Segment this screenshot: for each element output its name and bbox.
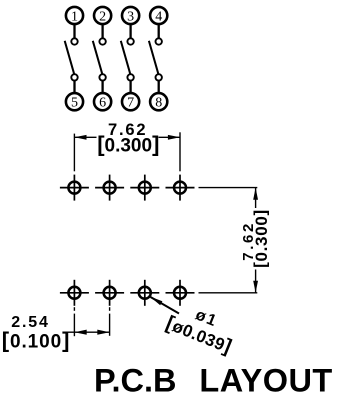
wire lower contact to pin 5 [73,81,75,92]
switch S2 lever [93,41,102,74]
pad A4 [166,175,195,201]
switch S2 lower contact [99,74,105,80]
switch S1 pin 1 terminal circle [66,7,83,24]
pad B1 [60,280,89,306]
pad B4 [166,280,195,306]
switch S4 upper contact [156,38,162,44]
wire lower contact to pin 6 [101,81,103,92]
switch S4 pin 8 terminal circle [150,93,167,110]
pad A2 [95,175,124,201]
switch S1 upper contact [71,38,77,44]
svg-text:5: 5 [71,96,78,111]
dimension line left segment with arrow [74,135,96,140]
extension line bottom pad row right [199,292,258,294]
wire pin2 to upper contact [101,25,103,38]
switch S4 pin 4 terminal circle [150,7,167,24]
svg-text:4: 4 [155,9,162,24]
switch S1 lever [65,41,74,74]
pad A3 [130,175,159,201]
vertical dimension line lower segment with arrow [253,270,258,293]
switch S3 lever [121,41,130,74]
pad A1 [60,175,89,201]
extension line top pad row right [199,187,258,189]
switch S2 upper contact [99,38,105,44]
extension line pad A1 top [73,134,75,172]
wire pin4 to upper contact [158,25,160,38]
switch S3 pin 7 terminal circle [122,93,139,110]
extension line pad B2 bottom [109,307,111,336]
svg-text:P.C.B LAYOUT: P.C.B LAYOUT [94,362,333,398]
vertical dimension line upper segment with arrow [253,188,258,208]
leader arrow to pad B3 [150,297,179,314]
dimension line 2.54 with outward arrows [67,330,109,335]
switch S2 pin 2 terminal circle [94,7,111,24]
svg-text:3: 3 [127,9,134,24]
svg-text:1: 1 [71,9,78,24]
pad B2 [95,280,124,306]
switch S3 pin 3 terminal circle [122,7,139,24]
switch S3 lower contact [127,74,133,80]
svg-text:2.54: 2.54 [11,314,49,331]
switch S1 lower contact [71,74,77,80]
switch S3 upper contact [127,38,133,44]
extension line pad A4 top [179,132,181,171]
wire pin3 to upper contact [129,25,131,38]
switch S1 pin 5 terminal circle [66,93,83,110]
dimension line right segment with arrow [159,135,181,140]
svg-text:7: 7 [127,96,134,111]
wire lower contact to pin 8 [158,81,160,92]
svg-text:2: 2 [99,9,106,24]
switch S4 lever [149,41,158,74]
svg-text:8: 8 [155,96,162,111]
extension line pad B1 bottom [73,307,75,336]
svg-text:6: 6 [99,96,106,111]
svg-text:[0.100]: [0.100] [2,328,71,353]
pad B3 [130,280,159,306]
wire pin1 to upper contact [73,25,75,38]
switch S4 lower contact [156,74,162,80]
svg-text:[0.300]: [0.300] [97,132,159,157]
switch S2 pin 6 terminal circle [94,93,111,110]
svg-text:[0.300]: [0.300] [251,209,272,268]
wire lower contact to pin 7 [129,81,131,92]
